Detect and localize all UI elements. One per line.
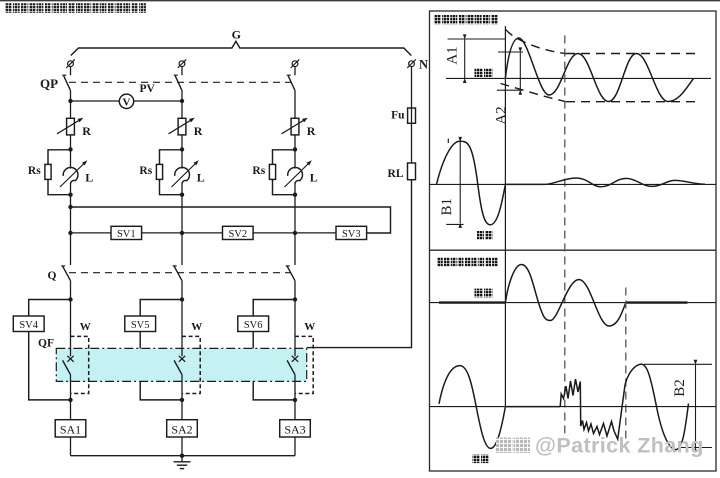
node: pole 1 bottom drop junction [68,398,72,402]
lower decay envelope dashed [501,84,567,102]
B1 bottom reference line [446,223,463,225]
svg-text:L: L [197,170,205,184]
relay SV2 [223,226,254,239]
terminal circle L3 [292,61,298,67]
node: pole 3 bottom drop junction [293,398,297,402]
fuse Fu [408,108,416,123]
svg-text:A1: A1 [445,46,461,64]
current zero thick segment after [626,301,688,303]
node: top of Rs/L parallel pole 2 [180,147,184,151]
wire: SA1 to bottom bus [70,437,72,456]
breaker QF pole 2 [181,300,183,357]
wire: pole3 to SV3 [295,232,336,234]
node: top of Rs/L parallel pole 3 [293,147,297,151]
node: bottom of Rs/L parallel pole 3 [293,193,297,197]
wire: line1 horizontal to right vertical [71,207,391,233]
svg-text:QP: QP [40,76,58,91]
wattmeter W dashed box pole 2 [182,336,200,393]
Q mechanical link dashed line [69,272,290,274]
terminal circle L1 [68,61,74,67]
wire: pole 2 to SA2 [181,400,183,420]
current waveform panel1 [505,38,693,102]
wire: fuse to RL [411,123,413,163]
resistor Rs pole 2 [156,164,162,179]
watermark Zhihu [496,438,530,454]
node: pole1 line1 junction [68,205,72,209]
switch Q pole 3 [287,266,295,280]
wattmeter W dashed box pole 3 [295,336,313,393]
resistor R pole 3 (variable) [291,118,299,135]
voltmeter PV [119,94,133,108]
sensor SA3 [280,420,311,437]
wire: SV5 drop pole 2 [140,300,182,400]
wire: R to parallel branch pole 1 [70,135,72,149]
terminal circle N4 [409,61,415,67]
relay SV1 [111,226,142,239]
switch Q pole 2 [174,266,182,280]
svg-text:Rs: Rs [139,165,152,177]
svg-text:SV5: SV5 [131,320,150,331]
current axis panel1 [446,77,711,79]
svg-text:SA2: SA2 [171,422,192,436]
wire: generator bus G [71,41,412,55]
switch Q pole 1 [63,266,71,280]
svg-text:QF: QF [38,338,54,350]
breaker QF pole 1 [70,300,72,357]
current waveform panel2 [505,265,625,327]
svg-text:V: V [123,97,131,109]
svg-text:PV: PV [140,83,156,95]
svg-text:Fu: Fu [391,110,405,122]
wire: pole1 down through line1/line2 [70,195,72,265]
wire: Rs branch loop pole 3 [273,150,296,195]
svg-text:W: W [304,321,315,333]
page top border line [0,0,720,2]
wire: pole2 to SV2 [182,232,223,234]
wire: SA2 to bottom bus [181,437,183,456]
svg-text:SA1: SA1 [60,422,81,436]
svg-text:B2: B2 [672,379,688,397]
node: pole 2 bottom drop junction [180,398,184,402]
voltage waveform panel1 [437,141,506,225]
wire: SA3 to bottom bus [294,437,296,456]
wire: R to parallel branch pole 3 [294,135,296,149]
wire: N terminal down to fuse [411,67,413,108]
node: pole1 PV junction [68,99,72,103]
relay SV5 [125,316,156,332]
svg-text:L: L [310,170,318,184]
wire: RL down and left to enclosure [307,180,412,348]
svg-text:R: R [307,124,316,138]
current label (Chinese) panel1 [475,68,493,77]
wire: Rs branch loop pole 2 [160,150,183,195]
wire: pole2 down through crossings [181,195,183,265]
title text (Chinese): short-circuit making/breaking capacity type test circuit [5,3,146,13]
voltage axis panel1 [430,183,717,185]
node: top of Rs/L parallel pole 1 [68,147,72,151]
svg-text:W: W [80,321,91,333]
B1 peak tick [447,139,449,143]
A1 dimension arrow [464,39,466,78]
svg-text:B1: B1 [439,198,455,216]
terminal circle L2 [179,61,185,67]
B2 bottom reference line [681,447,712,449]
wire: pole 1 down to R [70,91,72,119]
recovery voltage waveform [625,364,689,449]
wire: SV6 drop pole 3 [253,300,295,400]
wire: pole 3 to SA3 [294,400,296,420]
relay SV4 [13,316,44,332]
wire: bottom bus [71,455,296,457]
svg-text:SV2: SV2 [228,229,247,240]
svg-text:R: R [82,124,91,138]
current label (Chinese) panel2 [475,289,493,298]
making instant vertical line [504,26,506,407]
waveform panel divider [430,249,717,251]
svg-text:G: G [232,28,241,42]
wire: pole3 down through crossings [294,195,296,265]
svg-text:Rs: Rs [28,165,41,177]
node: pole3 line2 junction [293,231,297,235]
inductor L pole 3 (variable) [294,150,296,169]
resistor R pole 2 (variable) [178,118,186,135]
current axis panel2 [430,302,717,304]
resistor Rs pole 1 [45,164,51,179]
dashed time marker line 1 [564,36,566,440]
svg-text:SV3: SV3 [342,229,361,240]
panel2 title (Chinese): breaking or make-break test waveform [437,257,498,266]
wire: SV4 drop pole 1 [29,300,71,400]
inductor L pole 1 (variable) [70,150,72,169]
svg-text:N: N [419,57,428,71]
wire: pole 3 down to R [294,91,296,119]
node: pole 3 SV drop junction [293,297,297,301]
svg-text:R: R [194,124,203,138]
QP mechanical link dashed line [69,81,291,83]
breaker QF pole 3 [294,300,296,357]
sensor SA1 [55,420,86,437]
wire: pole1 to voltmeter [71,100,120,102]
voltage label (Chinese) panel1 [477,231,493,240]
resistor Rs pole 3 [269,164,275,179]
svg-text:SV4: SV4 [19,320,38,331]
relay SV6 [238,316,269,332]
node: pole2 line2 junction [180,231,184,235]
wire: pole 2 down to R [181,91,183,119]
ground symbol [181,456,183,462]
node: pole 1 SV drop junction [68,297,72,301]
QF enclosure (cyan band, dash-dot) [56,348,306,381]
A2 dimension arrow [519,52,521,90]
wire: Rs branch loop pole 1 [48,150,71,195]
svg-text:RL: RL [388,168,404,180]
voltage label (Chinese) panel2 [473,455,489,464]
arc voltage jagged section [560,379,625,439]
sensor SA2 [167,420,198,437]
wire: pole 1 to SA1 [70,400,72,420]
svg-text:SA3: SA3 [284,422,305,436]
voltage ripple after closing [505,178,705,187]
wire: SV1 to pole2 [142,232,182,234]
svg-text:SV6: SV6 [244,320,263,331]
svg-text:SV1: SV1 [117,229,136,240]
A1 top reference line [448,38,506,40]
voltage waveform panel2 before breaking [439,366,560,449]
dashed time marker line 2 [625,288,627,440]
relay SV3 [336,226,367,239]
voltage axis panel2 [430,406,717,408]
A2 bottom reference line [497,89,523,91]
B1 dimension arrow [459,142,461,224]
svg-text:A2: A2 [494,106,510,124]
node: bottom of Rs/L parallel pole 2 [180,193,184,197]
node: pole2 PV junction [180,99,184,103]
svg-text:W: W [191,321,202,333]
wire: SV2 to pole3 [253,232,295,234]
svg-text:@Patrick Zhang: @Patrick Zhang [535,434,704,458]
svg-text:L: L [85,170,93,184]
B2 top reference line [644,363,712,365]
waveform panel frame [430,11,717,471]
node: pole 2 SV drop junction [180,297,184,301]
A2 top reference line [498,51,523,53]
node: bottom of Rs/L parallel pole 1 [68,193,72,197]
wire: R to parallel branch pole 2 [181,135,183,149]
svg-text:Rs: Rs [252,165,265,177]
wattmeter W dashed box pole 1 [71,336,89,393]
svg-text:Q: Q [48,270,57,282]
upper decay envelope dashed [506,30,566,54]
node: pole1 line2 junction [68,231,72,235]
resistor RL [408,163,416,180]
resistor R pole 1 (variable) [67,118,75,135]
switch QP pole 2 [181,67,183,76]
inductor L pole 2 (variable) [181,150,183,169]
wire: voltmeter to pole2 [134,100,182,102]
switch QP pole 3 [294,67,296,76]
wire: pole1 to SV1 [71,232,112,234]
switch QP pole 1 [70,67,72,76]
node: ground junction [180,454,184,458]
panel1 title (Chinese): test circuit setting waveform [434,15,498,24]
B2 dimension arrow [695,364,697,447]
current zero thick segment before [439,301,505,303]
